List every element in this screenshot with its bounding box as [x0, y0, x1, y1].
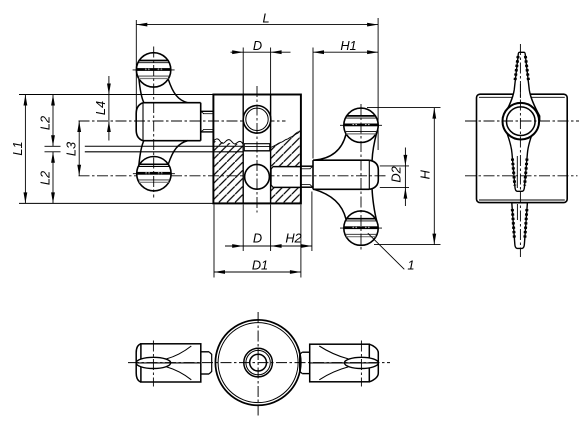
svg-text:L2: L2 [37, 171, 52, 185]
upper wing serrations [515, 56, 518, 82]
dimension H [367, 108, 441, 245]
bottom-left knob centerline [152, 341, 154, 387]
bottom wing (second screw) [512, 203, 528, 249]
left wing screw bottom lobe [133, 157, 175, 191]
ball seat [244, 143, 270, 145]
dimension L1 [24, 95, 26, 204]
svg-text:D: D [253, 38, 262, 53]
vertical centerline bore [256, 86, 258, 213]
svg-text:L1: L1 [10, 141, 25, 155]
dimension L3 [78, 121, 80, 176]
right wing screw bottom lobe [340, 211, 382, 245]
extension line block top [19, 94, 213, 96]
side view vertical centerline [519, 44, 521, 257]
threaded shank right [301, 165, 313, 167]
wavy break line right [271, 130, 301, 147]
right lobes vertical centerline [360, 104, 362, 252]
svg-text:1: 1 [407, 258, 414, 273]
gap extension ticks left [45, 145, 61, 147]
clamp body block [213, 95, 301, 204]
bottom-left wing flares [167, 346, 192, 359]
wavy break line left [214, 139, 244, 145]
hole D [243, 106, 271, 134]
bottom view horizontal axis [128, 362, 390, 364]
dimension D2 [380, 148, 409, 207]
middle wing (down from ring) [505, 128, 535, 192]
axis lower (screw 2 / ball stud) [79, 175, 387, 177]
svg-text:L2: L2 [37, 116, 52, 130]
bottom-left wing lens [136, 357, 171, 368]
svg-text:L4: L4 [93, 101, 108, 115]
svg-text:D: D [253, 231, 262, 246]
hatch right lower part [271, 188, 301, 204]
bottom body circle [215, 320, 300, 405]
dimension H1 [313, 48, 378, 159]
left hub cap [136, 103, 143, 141]
hatch right upper part [271, 130, 301, 167]
bottom-right wing lens [344, 357, 378, 368]
right hub [313, 159, 369, 161]
left lobes vertical centerline [153, 47, 155, 198]
side view lower axis [465, 175, 578, 177]
leader line item 1 [368, 233, 405, 269]
upper wing [504, 52, 540, 120]
dimension D1 [214, 205, 301, 278]
gap lines [85, 145, 243, 147]
side view upper axis [465, 120, 579, 122]
dimension L [136, 18, 378, 150]
dimension D top [231, 48, 291, 95]
dimension L4 [108, 76, 110, 141]
axis upper (screw 1 / hole D) [79, 120, 286, 122]
bottom-right knob centerline [360, 341, 362, 387]
bottom-left knob cylinder [141, 344, 201, 382]
bottom view vertical centerline [257, 312, 259, 417]
bottom-right knob cylinder [310, 344, 370, 382]
dimension L2 upper [52, 95, 54, 147]
right wing screw top lobe [340, 108, 382, 142]
svg-text:D2: D2 [389, 166, 404, 182]
svg-text:D1: D1 [252, 257, 268, 272]
hatch left part [213, 141, 243, 203]
right wing curves [314, 134, 346, 160]
bottom center boss rings [244, 348, 273, 377]
dimension D bottom and H2 [225, 192, 312, 252]
bottom-right knob cap [369, 344, 378, 382]
svg-text:H1: H1 [340, 38, 356, 53]
bottom-right neck [302, 351, 310, 353]
svg-text:H2: H2 [285, 231, 301, 246]
left neck thread [201, 110, 214, 112]
side body [477, 94, 568, 202]
ball stud [273, 166, 301, 168]
svg-text:L3: L3 [64, 142, 79, 156]
bottom-right wing flares [319, 346, 348, 359]
hub ring [503, 103, 540, 140]
left hub [143, 102, 201, 104]
extension line block bottom [19, 202, 214, 204]
bottom-left knob cap [136, 344, 141, 382]
svg-text:L: L [262, 10, 269, 25]
svg-text:H: H [417, 169, 432, 179]
left wing screw top lobe [133, 53, 175, 87]
slot bore lines [242, 95, 244, 204]
dimension L2 lower [52, 152, 54, 204]
left wing curves [168, 79, 188, 103]
bottom-left neck [201, 351, 209, 353]
clamp ball [245, 164, 270, 189]
right hub cap [369, 160, 378, 189]
